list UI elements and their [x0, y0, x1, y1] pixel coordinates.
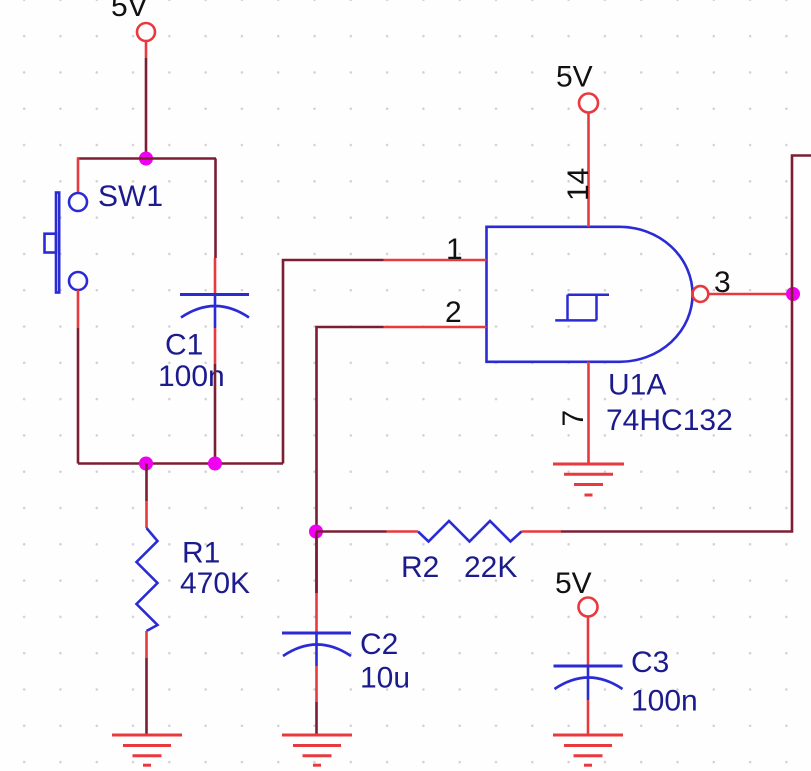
resistor R1 [137, 528, 158, 631]
wire bottom rail [78, 462, 283, 465]
wire R2 to junction [316, 530, 387, 533]
wire SW1 top pin [77, 158, 80, 194]
wire C1 top [214, 159, 217, 259]
wire SW1 bottom pin [77, 290, 80, 328]
NAND gate U1A body [487, 227, 693, 362]
wire horizontal top [77, 157, 216, 160]
wire C2 top pin [315, 593, 318, 633]
svg-text:22K: 22K [464, 551, 517, 584]
wire R1 top [145, 464, 148, 502]
power 5V symbol (C3) [579, 598, 598, 667]
svg-text:3: 3 [714, 266, 731, 299]
pin 7 stub [587, 362, 590, 464]
pin 14 stub [587, 113, 590, 227]
pin stub R2 left [387, 530, 419, 533]
svg-text:7: 7 [557, 410, 590, 427]
power 5V symbol (top left) [137, 23, 155, 58]
wire R1 bottom pin [145, 631, 148, 658]
wire C3 bottom pin [587, 700, 590, 735]
pin stub R2 right [522, 530, 562, 533]
wire junction to C2 pin [315, 532, 318, 594]
wire pin2 to C2 column [317, 327, 384, 593]
svg-text:1: 1 [446, 233, 463, 266]
wire rail to pin1 riser [283, 260, 384, 464]
svg-text:C1: C1 [165, 329, 203, 362]
svg-text:2: 2 [445, 296, 462, 329]
pin 2 stub [384, 326, 487, 329]
output bubble U1A [693, 286, 709, 302]
wire C1 bottom pin [214, 328, 217, 364]
svg-text:470K: 470K [180, 567, 250, 600]
junction node top [139, 152, 153, 166]
ground (C2) [282, 735, 352, 765]
svg-text:U1A: U1A [608, 369, 666, 402]
wire R1 to ground [145, 658, 148, 735]
capacitor C1 [180, 295, 249, 329]
wire output down to R2 [561, 294, 792, 532]
svg-text:5V: 5V [111, 0, 148, 23]
svg-text:74HC132: 74HC132 [606, 404, 733, 437]
svg-text:SW1: SW1 [98, 180, 163, 213]
svg-text:5V: 5V [555, 567, 592, 600]
svg-text:5V: 5V [556, 61, 593, 94]
wire C2 bottom pin [315, 666, 318, 702]
svg-text:14: 14 [562, 168, 595, 201]
wire C1 to bottom rail [214, 364, 217, 464]
wire R1 top pin [145, 501, 148, 528]
capacitor C2 [282, 633, 351, 666]
wire C1 top pin [214, 258, 217, 295]
wire output up to edge [792, 156, 811, 295]
switch SW1 [45, 193, 88, 293]
pin 3 stub [708, 293, 792, 296]
svg-text:100n: 100n [631, 685, 698, 718]
ground (U1A pin 7) [553, 464, 624, 495]
junction node C2/R2 [309, 525, 323, 539]
power 5V symbol (U1A pin 14) [579, 94, 598, 113]
ground (C3) [553, 735, 623, 765]
svg-text:C3: C3 [631, 646, 669, 679]
schmitt trigger symbol [555, 295, 609, 321]
svg-text:10u: 10u [360, 662, 410, 695]
junction node rail right [208, 457, 222, 471]
junction node rail left [139, 457, 153, 471]
svg-text:R1: R1 [182, 537, 220, 570]
svg-text:C2: C2 [360, 628, 398, 661]
wire 5V to junction [145, 58, 148, 159]
pin 1 stub [384, 259, 487, 262]
resistor R2 [418, 521, 522, 542]
ground (R1) [112, 735, 182, 765]
wire SW1 to bottom rail [77, 328, 80, 464]
svg-text:R2: R2 [401, 551, 439, 584]
wire C2 to ground [315, 702, 318, 735]
capacitor C3 [554, 666, 623, 700]
junction node output [786, 287, 800, 301]
